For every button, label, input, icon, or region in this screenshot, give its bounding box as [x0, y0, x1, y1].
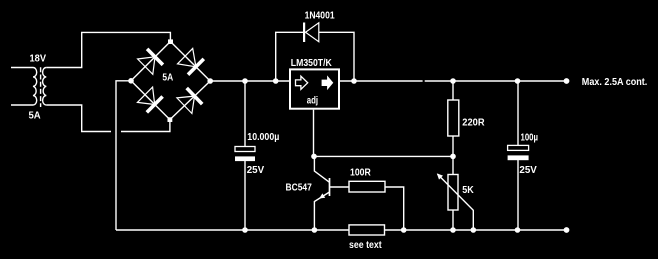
negative rail left segment	[116, 229, 349, 231]
potentiometer P1 top lead	[452, 156, 454, 174]
transistor Q1 collector lead	[314, 156, 329, 182]
resistor R2 100R right lead	[385, 187, 404, 230]
regulator U1 adj pin wire	[313, 110, 315, 157]
capacitor C2 bottom plate	[508, 155, 529, 160]
diode D5 1N4001 left leg	[276, 32, 303, 81]
capacitor C1 top lead	[244, 81, 246, 147]
transformer TR1 core	[40, 67, 42, 107]
wire secondary bottom to bridge bottom	[46, 105, 111, 132]
resistor R1 220R body	[448, 100, 459, 136]
capacitor C1 bottom plate	[235, 156, 255, 161]
svg-text:5K: 5K	[462, 185, 474, 196]
svg-text:25V: 25V	[519, 165, 537, 176]
junction dot ground wiper	[471, 227, 477, 233]
svg-text:Max. 2.5A cont.: Max. 2.5A cont.	[582, 77, 648, 88]
wire bridge edge left-top	[131, 42, 170, 81]
junction dot rail D5 left	[273, 78, 279, 84]
junction dot rail D5 right	[351, 78, 357, 84]
node top of bridge	[168, 39, 173, 44]
bridge diode D1 top-left	[138, 49, 163, 74]
wire bridge left node to negative rail	[116, 81, 131, 230]
wire positive rail regulator to net break	[340, 80, 423, 82]
wire adj to divider	[314, 155, 454, 157]
node bottom of bridge	[168, 117, 173, 122]
wire secondary top to bridge top	[46, 32, 170, 67]
transformer TR1 primary winding	[33, 68, 37, 106]
regulator U1 LM350T/K box	[290, 69, 339, 108]
resistor R3 see-text body	[349, 225, 385, 235]
resistor R2 100R body	[349, 181, 385, 192]
wire positive rail bridge to regulator	[210, 80, 289, 82]
transformer TR1 primary bottom lead	[11, 104, 33, 106]
junction dot rail C1	[242, 78, 248, 84]
junction dot ground R2	[401, 227, 407, 233]
svg-text:100µ: 100µ	[521, 133, 539, 144]
transformer TR1 secondary winding	[43, 68, 47, 106]
transistor Q1 emitter lead	[314, 192, 329, 230]
transformer TR1 primary top lead	[11, 67, 33, 69]
terminal dot output plus	[564, 78, 570, 84]
svg-text:adj: adj	[307, 95, 319, 106]
node left of bridge	[128, 78, 134, 84]
negative rail right segment	[385, 229, 567, 231]
svg-text:100R: 100R	[350, 167, 371, 178]
junction dot ground C2	[515, 227, 521, 233]
capacitor C2 top plate	[508, 145, 529, 150]
regulator U1 input arrow (outline)	[296, 76, 308, 89]
capacitor C2 bottom lead	[517, 160, 519, 230]
wire bridge edge top-right	[170, 42, 210, 82]
bridge diode D2 top-right	[178, 48, 204, 74]
svg-text:see text: see text	[349, 240, 382, 251]
wire positive rail net break to output	[425, 80, 567, 82]
potentiometer P1 wiper line	[438, 174, 474, 230]
capacitor C1 bottom lead	[244, 161, 246, 230]
junction dot divider tap	[450, 154, 456, 160]
junction dot ground C1	[242, 227, 248, 233]
bridge diode D3 bottom-left	[137, 87, 162, 112]
svg-text:220R: 220R	[462, 118, 485, 129]
capacitor C2 top lead	[517, 81, 519, 146]
junction dot rail C2	[515, 78, 521, 84]
svg-text:5A: 5A	[29, 110, 41, 121]
potentiometer P1 body	[448, 175, 458, 211]
bridge diode D4 bottom-right	[177, 88, 202, 114]
svg-text:LM350T/K: LM350T/K	[291, 58, 333, 69]
wire bottom AC segment after crossover	[121, 120, 170, 132]
svg-text:BC547: BC547	[286, 183, 313, 194]
wire bridge edge bottom-right	[170, 81, 210, 120]
potentiometer P1 wiper arrowhead	[437, 173, 443, 179]
transistor Q1 base bar	[329, 178, 331, 196]
wire bridge edge left-bottom	[131, 81, 170, 120]
svg-text:18V: 18V	[30, 53, 47, 64]
diode D5 1N4001 right leg	[319, 32, 354, 81]
diode D5 1N4001 symbol	[303, 23, 319, 43]
capacitor C1 top plate	[235, 147, 255, 152]
svg-text:25V: 25V	[247, 165, 265, 176]
junction dot ground P1	[450, 227, 456, 233]
transistor Q1 emitter arrowhead	[319, 193, 325, 198]
resistor R1 220R bottom lead	[452, 136, 454, 156]
node right of bridge	[207, 78, 213, 84]
svg-text:1N4001: 1N4001	[305, 10, 335, 21]
terminal dot output minus	[564, 227, 570, 233]
junction dot adj/collector	[311, 154, 317, 160]
regulator U1 output arrow (filled)	[322, 75, 334, 90]
transistor Q1 base lead	[330, 186, 350, 188]
junction dot rail R1	[450, 78, 456, 84]
resistor R1 220R top lead	[452, 81, 454, 100]
potentiometer P1 bottom lead	[452, 210, 454, 230]
junction dot ground emitter	[312, 227, 318, 233]
svg-text:10.000µ: 10.000µ	[247, 132, 279, 143]
svg-text:5A: 5A	[162, 72, 173, 83]
